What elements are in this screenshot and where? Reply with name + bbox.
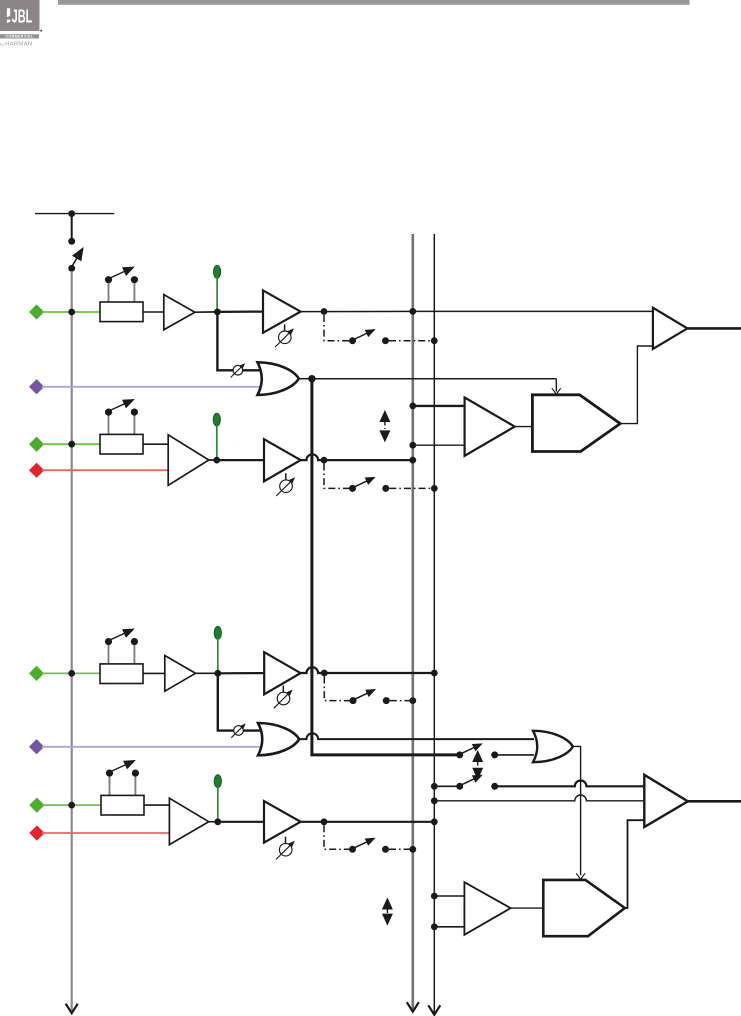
switch SW5 contact	[491, 751, 498, 758]
junction: CH3 end on black bus	[431, 670, 438, 677]
junction: CH3 tap	[321, 670, 328, 677]
switch S0 arm	[73, 249, 83, 266]
level adjust arrow 1	[379, 410, 390, 442]
wire: SW5 to OR3	[498, 754, 534, 756]
input IN3 (green diamond)	[29, 666, 44, 681]
wire: OR1 to ducker1	[312, 378, 556, 380]
gain select box CH4	[101, 761, 144, 815]
mixer amp M2	[464, 882, 510, 935]
wire: V3 out (hops link) to black bus	[301, 667, 435, 673]
output amp P2	[644, 775, 688, 827]
junction: CH4 end on black bus	[431, 818, 438, 825]
bus: record/gray bus	[411, 234, 414, 1010]
switch SW2 contact	[382, 485, 389, 492]
wire: SW3 to gray bus	[390, 700, 413, 702]
input IN1 (green diamond)	[29, 304, 44, 319]
wire: gray bus to mixer M1 in2	[413, 444, 465, 446]
wire: box2 to amp A2	[143, 443, 168, 445]
bus: page/black bus	[433, 234, 435, 1013]
wire: LED3 stem	[217, 639, 219, 674]
input PAGE2 (purple diamond)	[29, 739, 44, 754]
junction: black bus feed 3	[431, 783, 438, 790]
buffer amp A2	[168, 435, 209, 486]
junction: SW3 on gray bus	[409, 697, 416, 704]
junction: SW1 on black bus	[431, 337, 438, 344]
wire: black bus to mixer M2 in1	[434, 895, 464, 897]
output amp P1	[653, 308, 688, 349]
junction: gray bus feed 1	[409, 403, 416, 410]
gain trim symbol OR1 input	[231, 364, 245, 377]
wire: A2 out	[209, 459, 217, 461]
wire: gray bus to mixer M1 in1	[413, 405, 465, 407]
wire: PAGE1 purple	[42, 386, 264, 388]
wire: IN3 green	[42, 672, 100, 674]
arrow: left bus end	[66, 1004, 78, 1014]
switch S0 contact a	[68, 238, 75, 245]
wire: CH1 to summing OR1	[217, 312, 259, 370]
ducker/limiter block D2 (pentagon)	[543, 880, 625, 936]
arrow: gray bus end	[407, 1002, 419, 1012]
mixer amp M1	[465, 398, 515, 456]
wire: SW4 to gray bus	[389, 848, 413, 850]
summing gate OR3	[533, 731, 573, 762]
wire: CH1 to output amp	[413, 310, 653, 312]
gain select box CH3	[100, 629, 143, 683]
wire: PAGE2 purple	[42, 746, 264, 748]
switch SW1 contact	[382, 337, 389, 344]
arrow: black bus end	[428, 1005, 440, 1015]
wire: tee drop	[71, 214, 73, 239]
svg-text:COMMERCIAL: COMMERCIAL	[6, 35, 34, 39]
JBL logo exclamation glyph	[7, 8, 10, 23]
ducker/limiter block D1 (pentagon)	[532, 395, 620, 452]
switch SW3 arm	[354, 690, 374, 700]
wire: CH3 mute dash-dot drop	[324, 677, 349, 701]
junction: OR1 output node	[308, 375, 315, 382]
gain trim symbol V2	[276, 473, 294, 496]
junction: CH1 on gray bus	[409, 308, 416, 315]
wire: M1 to ducker1	[515, 426, 533, 428]
buffer amp A3	[165, 656, 196, 692]
svg-text:by HARMAN: by HARMAN	[0, 42, 32, 48]
variable amp V1	[263, 290, 301, 332]
input MIC4 (red diamond)	[29, 825, 44, 840]
wire: V1 out to gray bus	[301, 310, 413, 312]
wire: black bus to P2 in2 (hops)	[434, 795, 644, 801]
wire: CH4 mute dash-dot drop	[324, 825, 349, 849]
wire: OR1 out	[299, 378, 312, 380]
junction: CH2 end on gray bus	[409, 457, 416, 464]
wire: LED1 stem	[216, 278, 218, 312]
junction: black bus feed 5	[431, 893, 438, 900]
wire: OUTPUT 2	[688, 800, 741, 803]
switch SW2 arm	[354, 478, 374, 488]
indicator LED3 (green oval)	[214, 626, 221, 639]
junction: CH2 tap	[321, 457, 328, 464]
indicator LED2 (green oval)	[213, 413, 220, 426]
wire: MIC2 red	[42, 469, 168, 471]
junction: tee center	[68, 210, 75, 217]
wire: V4 out to black bus	[301, 821, 435, 823]
junction: black bus feed 6	[431, 923, 438, 930]
wire: LED2 stem	[216, 425, 218, 460]
buffer amp A4	[169, 798, 208, 844]
node: top rail	[35, 213, 114, 215]
junction: IN1 on left bus	[68, 309, 75, 316]
wire: LED4 stem	[217, 787, 219, 822]
junction: CH3 node	[214, 670, 221, 677]
input IN2 (green diamond)	[29, 437, 44, 452]
gain select box CH1	[100, 267, 143, 321]
wire: CH3 to summing OR2	[218, 673, 260, 730]
level adjust arrow 3	[382, 898, 393, 926]
switch SW6 contact	[491, 783, 498, 790]
switch SW4 arm	[354, 838, 374, 848]
input MIC2 (red diamond)	[29, 463, 44, 478]
level select arrow 2	[472, 750, 483, 780]
wire: M2 to ducker2	[511, 907, 544, 909]
indicator LED4 (green oval)	[214, 775, 221, 788]
gain trim symbol OR2 input	[231, 724, 245, 737]
wire: CH2 mute dash-dot drop	[324, 464, 349, 489]
switch SW6 arm	[461, 775, 481, 785]
switch SW1 pivot	[349, 337, 356, 344]
wire: to var-amp V2	[217, 459, 264, 461]
junction: CH4 tap	[321, 818, 328, 825]
wire: V2 out (hops link) to gray bus	[301, 454, 413, 460]
switch SW6 pivot	[456, 783, 463, 790]
wire: to var-amp V1	[217, 311, 263, 313]
summing gate OR2	[258, 723, 299, 755]
switch S0 contact b (pivot)	[68, 265, 75, 272]
JBL logo square	[0, 0, 40, 31]
wire: A4 out	[209, 821, 218, 823]
wire: box1 to buffer A1	[143, 311, 164, 313]
wire: box3 to buffer A3	[143, 672, 165, 674]
wire: OR2 out (hops link) to OR3	[299, 733, 534, 739]
wire: black bus to mixer M2 in2	[434, 926, 464, 928]
junction: CH1 node	[214, 309, 221, 316]
wire: SW1 to black bus	[389, 340, 434, 342]
wire: OUTPUT 1	[687, 327, 741, 330]
junction: gray bus feed 2	[409, 442, 416, 449]
input IN4 (green diamond)	[29, 797, 44, 812]
wire: MIC4 red	[42, 832, 169, 834]
wire: D2 out to output amp P2	[625, 820, 645, 908]
wire: A3 out	[196, 672, 218, 674]
junction: IN3 on left bus	[68, 670, 75, 677]
wire: OR1 to zone link (thick)	[312, 379, 457, 755]
arrow: into ducker1	[552, 388, 561, 394]
variable amp V3	[264, 652, 300, 694]
header bar	[58, 0, 690, 5]
gain trim symbol V3	[274, 686, 292, 709]
summing gate OR1	[258, 362, 299, 395]
junction: CH2 node	[213, 457, 220, 464]
gain trim symbol V4	[276, 837, 294, 860]
indicator LED1 (green oval)	[214, 265, 221, 278]
wire: CH1 mute dash-dot drop	[324, 315, 349, 341]
junction: SW4 on gray bus	[409, 846, 416, 853]
junction: black bus feed 4	[431, 797, 438, 804]
arrow: into ducker2	[576, 873, 585, 879]
switch SW4 pivot	[349, 846, 356, 853]
wire: D1 out to output amp P1	[620, 346, 653, 424]
junction: CH1 tap	[321, 308, 328, 315]
switch SW4 contact	[382, 846, 389, 853]
left input bus (gray)	[71, 271, 73, 1011]
wire: box4 to amp A4	[144, 804, 169, 806]
wire: to var-amp V4	[218, 821, 264, 823]
wire: SW2 to black bus	[389, 487, 434, 489]
wire: black bus to SW6	[434, 785, 459, 787]
junction: IN4 on left bus	[68, 802, 75, 809]
buffer amp A1	[164, 295, 195, 330]
wire: A1 out	[195, 311, 218, 313]
input PAGE1 (purple diamond)	[29, 379, 44, 394]
commercial bar	[0, 34, 39, 38]
junction: CH4 node	[214, 818, 221, 825]
junction: SW2 on black bus	[431, 485, 438, 492]
switch SW3 pivot	[350, 697, 357, 704]
wire: ducker1 drop	[555, 379, 557, 392]
wire: SW6 to output amp P2 (hops)	[495, 780, 645, 786]
gain select box CH2	[100, 400, 143, 454]
svg-text:JBL: JBL	[12, 6, 33, 26]
variable amp V2	[264, 439, 301, 481]
registered mark	[40, 30, 42, 32]
wire: OR3 out to ducker2	[573, 746, 581, 875]
switch SW1 arm	[354, 330, 374, 340]
variable amp V4	[264, 801, 301, 843]
switch SW5 arm	[461, 744, 481, 754]
junction: IN2 on left bus	[68, 441, 75, 448]
wire: to var-amp V3	[218, 672, 264, 674]
switch SW3 contact	[383, 697, 390, 704]
switch SW2 pivot	[349, 485, 356, 492]
gain trim symbol V1	[275, 324, 293, 347]
wire: IN1 green	[42, 311, 100, 313]
wire: IN4 green	[42, 804, 101, 806]
wire: IN2 green	[42, 443, 100, 445]
switch SW5 pivot (zone link)	[456, 751, 463, 758]
